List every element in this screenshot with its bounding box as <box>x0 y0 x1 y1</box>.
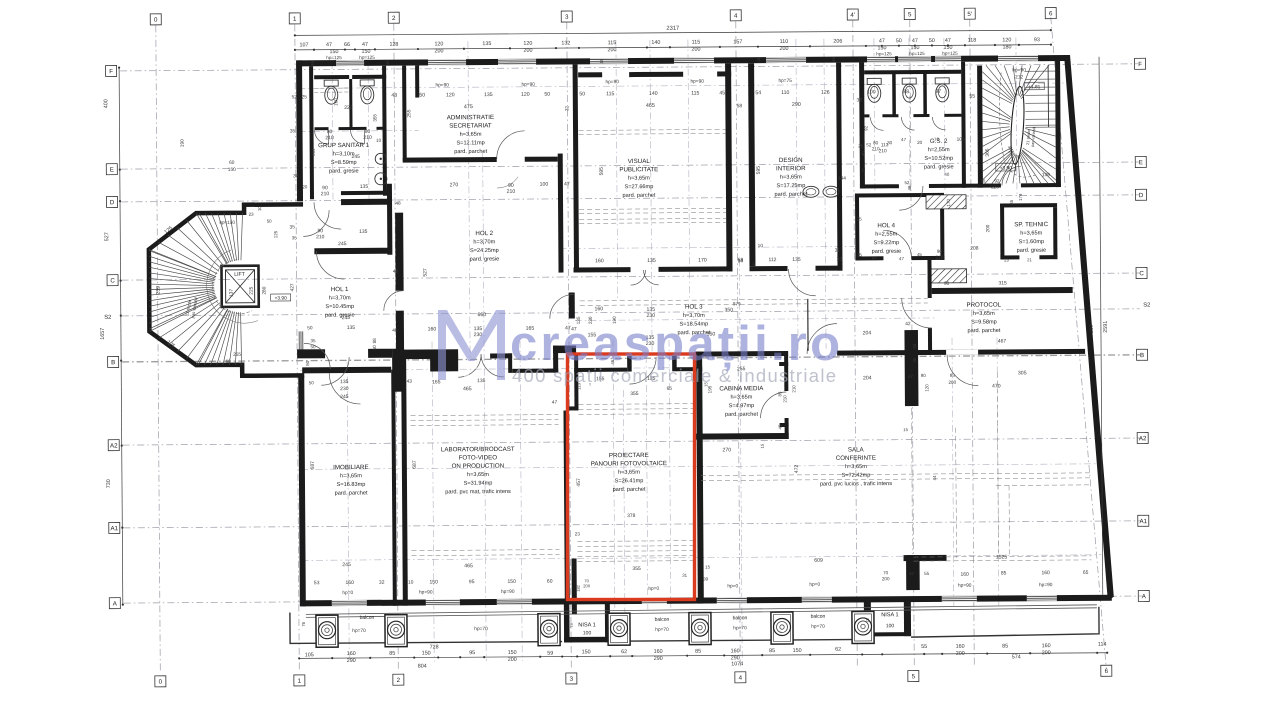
svg-text:20: 20 <box>302 184 307 189</box>
grid marker C left <box>107 275 118 286</box>
svg-text:pard. gresie: pard. gresie <box>872 249 902 255</box>
svg-text:pard. parchet: pard. parchet <box>613 487 646 493</box>
svg-text:B: B <box>111 359 115 366</box>
svg-text:355: 355 <box>630 391 639 397</box>
svg-text:365: 365 <box>985 148 991 156</box>
svg-text:23: 23 <box>1004 257 1009 262</box>
visual publicitate left wall <box>573 64 579 272</box>
window left wall <box>298 331 300 351</box>
svg-text:132: 132 <box>561 40 570 46</box>
protocol left wall lower <box>928 328 932 350</box>
svg-text:270: 270 <box>450 182 459 188</box>
grid axis lines vertical <box>156 25 161 671</box>
svg-text:139: 139 <box>1042 172 1050 178</box>
svg-text:10: 10 <box>980 179 985 184</box>
svg-text:50: 50 <box>307 325 313 331</box>
sp tehnic bottom b <box>1039 255 1057 259</box>
balcony planter column x=617 <box>608 613 630 645</box>
stall partition <box>349 79 352 130</box>
svg-text:CABINA MEDIA: CABINA MEDIA <box>719 385 764 392</box>
svg-text:pard. parchet: pard. parchet <box>454 149 487 155</box>
svg-text:105: 105 <box>305 652 314 658</box>
bottom dimension rows <box>299 653 1107 659</box>
svg-text:44: 44 <box>932 475 937 480</box>
svg-text:h=3,65m: h=3,65m <box>730 395 752 401</box>
svg-text:210: 210 <box>782 395 787 403</box>
svg-text:pard. pvc mat, trafic intens: pard. pvc mat, trafic intens <box>445 489 511 495</box>
svg-text:hp=75: hp=75 <box>778 78 792 84</box>
svg-text:1657: 1657 <box>100 328 106 340</box>
svg-text:SALA: SALA <box>848 446 865 453</box>
svg-text:62: 62 <box>621 649 627 655</box>
svg-text:595: 595 <box>756 166 762 175</box>
svg-text:88: 88 <box>372 338 377 344</box>
svg-text:48: 48 <box>391 93 397 99</box>
stall top wall a <box>314 75 349 79</box>
svg-text:350: 350 <box>724 307 733 313</box>
hol2-hol3 wall stub <box>569 292 575 318</box>
octagon stair treads <box>149 250 216 277</box>
svg-text:190: 190 <box>180 139 186 147</box>
svg-text:255: 255 <box>233 352 241 358</box>
svg-text:90: 90 <box>937 249 943 254</box>
svg-text:85: 85 <box>1001 570 1007 576</box>
door hol4 <box>883 230 911 258</box>
svg-text:35: 35 <box>290 224 296 230</box>
hatched pier 2 <box>930 269 967 283</box>
svg-text:52: 52 <box>904 180 909 185</box>
svg-text:85: 85 <box>695 649 701 655</box>
door gs2 exit <box>899 186 923 210</box>
svg-text:30: 30 <box>887 140 893 145</box>
svg-text:C: C <box>1139 270 1144 277</box>
door administratie <box>497 131 525 159</box>
svg-text:210: 210 <box>363 135 372 141</box>
grid marker A right <box>1138 590 1149 601</box>
svg-text:42: 42 <box>905 321 911 327</box>
svg-text:45: 45 <box>778 424 783 429</box>
svg-text:S=27.66mp: S=27.66mp <box>625 184 654 190</box>
gs2 partition 2 <box>923 72 927 116</box>
svg-text:hp=70: hp=70 <box>474 626 488 632</box>
gs2 front c <box>913 114 929 117</box>
svg-text:170: 170 <box>946 199 951 207</box>
svg-text:687: 687 <box>310 461 316 470</box>
svg-text:97: 97 <box>935 89 941 95</box>
svg-text:115: 115 <box>606 91 614 97</box>
svg-text:90: 90 <box>944 281 950 287</box>
svg-text:S=4.97mp: S=4.97mp <box>729 403 755 409</box>
svg-text:3: 3 <box>565 14 569 21</box>
gs2 front d <box>944 114 961 117</box>
svg-text:50: 50 <box>544 92 550 98</box>
watermark logo M <box>438 310 505 380</box>
svg-text:G.S. 2: G.S. 2 <box>930 138 948 145</box>
svg-text:144: 144 <box>838 176 846 182</box>
imobiliare right wall <box>391 370 397 606</box>
grid marker F right <box>1135 58 1146 69</box>
svg-text:53: 53 <box>314 580 320 586</box>
svg-text:15: 15 <box>705 565 710 570</box>
svg-text:hp=90: hp=90 <box>1012 67 1026 73</box>
grup sanitar bottom wall <box>341 191 387 195</box>
svg-text:85: 85 <box>769 648 775 654</box>
svg-text:210: 210 <box>316 234 325 240</box>
visual bottom wall b <box>658 266 732 272</box>
stair left wall <box>977 66 983 188</box>
toilet gs2 a <box>867 78 881 84</box>
svg-text:60: 60 <box>547 579 553 585</box>
door stair <box>1002 166 1021 185</box>
svg-text:S=17.25mp: S=17.25mp <box>777 183 806 189</box>
svg-text:220: 220 <box>344 105 353 111</box>
svg-text:45: 45 <box>599 58 604 63</box>
svg-text:NISA 1: NISA 1 <box>578 622 595 628</box>
visual publicitate right wall <box>725 63 732 271</box>
svg-text:IMOBILIARE: IMOBILIARE <box>333 464 368 471</box>
svg-text:0: 0 <box>159 679 163 686</box>
svg-text:160: 160 <box>731 648 740 654</box>
window in bottom wall 715-745 <box>717 597 747 599</box>
svg-text:+1.81: +1.81 <box>1028 84 1041 90</box>
hol4 bottom wall b <box>911 256 944 260</box>
svg-text:135: 135 <box>347 325 356 331</box>
svg-text:206: 206 <box>833 39 842 45</box>
svg-text:ON PRODUCTION: ON PRODUCTION <box>452 463 505 470</box>
svg-text:60: 60 <box>372 345 377 351</box>
door hol1-hol2 <box>384 291 404 311</box>
svg-text:31: 31 <box>682 573 687 578</box>
svg-text:85: 85 <box>389 651 395 657</box>
svg-text:80: 80 <box>873 140 879 145</box>
svg-text:140: 140 <box>649 91 658 97</box>
svg-text:23: 23 <box>575 531 581 536</box>
svg-text:h=3,65m: h=3,65m <box>780 174 802 180</box>
svg-text:hp=0: hp=0 <box>648 586 659 592</box>
administratie left wall <box>402 66 407 162</box>
svg-text:200: 200 <box>691 47 700 53</box>
shaft wall 48 <box>415 66 419 98</box>
svg-text:120: 120 <box>521 92 530 98</box>
svg-text:50: 50 <box>309 380 315 385</box>
svg-text:hp=125: hp=125 <box>942 51 958 56</box>
svg-text:128: 128 <box>389 42 398 48</box>
svg-text:210: 210 <box>321 191 330 197</box>
window in top wall 500-538 <box>498 59 536 61</box>
wall hol1-hol2 upper <box>395 213 404 291</box>
right margin dims <box>1099 57 1103 595</box>
svg-text:100: 100 <box>583 630 592 636</box>
svg-text:PANOURI FOTOVOLTAICE: PANOURI FOTOVOLTAICE <box>591 460 667 468</box>
svg-text:239: 239 <box>156 286 162 295</box>
toilet gs2 c <box>935 78 949 84</box>
laborator top wall b <box>490 353 512 358</box>
hatched pier 1 <box>926 195 966 209</box>
svg-text:47: 47 <box>326 42 332 48</box>
svg-text:32: 32 <box>564 105 569 111</box>
svg-text:HOL 4: HOL 4 <box>877 222 895 229</box>
svg-text:h=3,65m: h=3,65m <box>845 464 867 470</box>
svg-text:1: 1 <box>293 16 297 23</box>
svg-text:160: 160 <box>1042 643 1051 649</box>
svg-text:465: 465 <box>646 103 655 109</box>
svg-text:245: 245 <box>1008 145 1013 153</box>
svg-text:58: 58 <box>738 258 744 264</box>
grid marker A1 left <box>109 522 120 533</box>
door gs2 c <box>932 117 945 130</box>
balcony planter column x=698 <box>689 613 711 645</box>
svg-text:157: 157 <box>733 39 742 45</box>
toilet grup sanitar 1 a <box>324 80 338 86</box>
svg-text:45: 45 <box>831 57 836 62</box>
svg-text:135: 135 <box>647 258 656 264</box>
svg-text:10: 10 <box>408 580 414 586</box>
svg-text:85: 85 <box>1009 199 1014 204</box>
svg-text:hp=90: hp=90 <box>1039 582 1053 588</box>
svg-text:120: 120 <box>523 41 532 47</box>
svg-text:200: 200 <box>985 224 990 232</box>
door design <box>789 269 816 296</box>
svg-text:6: 6 <box>1049 10 1053 17</box>
svg-text:80: 80 <box>921 373 927 378</box>
svg-text:25: 25 <box>857 252 863 257</box>
cabina media right wall upper <box>784 351 788 391</box>
window in bottom wall 424-458 <box>426 599 460 601</box>
left margin dims <box>119 68 123 605</box>
stair bottom wall b <box>1021 183 1061 187</box>
svg-text:52: 52 <box>292 94 298 100</box>
svg-text:S=1.60mp: S=1.60mp <box>1018 239 1044 245</box>
svg-text:FOTO-VIDEO: FOTO-VIDEO <box>459 454 498 461</box>
svg-text:50: 50 <box>310 344 316 349</box>
stair top right newel <box>1009 86 1026 165</box>
svg-text:208: 208 <box>970 246 979 252</box>
visual top inner wall a <box>578 72 602 77</box>
door laborator leaf a <box>458 354 481 377</box>
svg-text:212: 212 <box>1015 74 1023 80</box>
svg-text:hp=70: hp=70 <box>811 624 825 630</box>
svg-text:58: 58 <box>737 103 743 109</box>
balcony planter column x=547 <box>538 614 560 646</box>
red highlight rectangle proiectare <box>568 354 695 600</box>
svg-text:245: 245 <box>338 241 347 247</box>
svg-text:A1: A1 <box>1139 518 1147 525</box>
door protocol <box>902 298 932 328</box>
cabina stub b <box>780 423 789 427</box>
svg-text:HOL 3: HOL 3 <box>685 304 703 311</box>
svg-text:100: 100 <box>867 89 876 95</box>
door visual b <box>644 270 659 285</box>
gs2 bottom wall b <box>929 184 979 188</box>
svg-text:15: 15 <box>903 427 908 432</box>
svg-text:ADMINISTRATIE: ADMINISTRATIE <box>447 114 494 121</box>
svg-text:210: 210 <box>872 146 880 151</box>
grid marker 1 bottom <box>294 675 305 686</box>
wall hol2-visual shaft <box>558 154 564 273</box>
svg-text:5': 5' <box>967 11 972 18</box>
svg-text:210: 210 <box>1089 324 1095 332</box>
svg-text:60: 60 <box>229 160 235 166</box>
svg-text:21: 21 <box>1027 257 1032 262</box>
gs2 top wall <box>864 70 961 75</box>
svg-text:+3.90: +3.90 <box>275 295 288 301</box>
grid marker 6 top <box>1045 8 1056 19</box>
svg-text:+3.90: +3.90 <box>1000 165 1013 171</box>
svg-text:balcon: balcon <box>360 615 375 621</box>
svg-text:118: 118 <box>968 38 977 44</box>
svg-text:hp=90: hp=90 <box>419 589 433 595</box>
svg-text:6: 6 <box>1105 668 1109 675</box>
svg-text:200: 200 <box>583 583 591 588</box>
svg-text:170: 170 <box>698 258 707 264</box>
svg-text:107: 107 <box>299 42 308 48</box>
door hol1 bottom <box>321 357 349 385</box>
svg-text:125: 125 <box>273 230 278 238</box>
svg-text:88: 88 <box>903 89 909 95</box>
svg-text:210: 210 <box>936 255 944 260</box>
svg-text:355: 355 <box>632 566 641 572</box>
svg-text:A2: A2 <box>1139 435 1147 442</box>
proiectare top jog a <box>627 356 632 372</box>
svg-text:135: 135 <box>340 379 349 385</box>
svg-text:85: 85 <box>872 256 878 261</box>
grid marker 6 bottom <box>1101 665 1112 676</box>
grid marker 2 top <box>388 12 399 23</box>
svg-text:135: 135 <box>477 378 486 384</box>
svg-text:355: 355 <box>372 114 377 122</box>
svg-text:92: 92 <box>994 178 1000 183</box>
balcony planter column x=325 <box>316 615 338 647</box>
interior dashed bands <box>579 129 726 130</box>
sp tehnic bottom a <box>1000 255 1019 259</box>
svg-text:hp=125: hp=125 <box>876 51 892 56</box>
stall front mid <box>339 127 353 130</box>
door visual a <box>631 270 646 285</box>
svg-text:270: 270 <box>722 447 731 453</box>
window in bottom wall 495-530 <box>497 599 532 601</box>
design interior right wall <box>836 63 842 271</box>
svg-text:SP. TEHNIC: SP. TEHNIC <box>1014 221 1048 228</box>
svg-text:290: 290 <box>347 658 356 664</box>
svg-text:LABORATOR/BRODCAST: LABORATOR/BRODCAST <box>441 446 515 454</box>
window in bottom wall 940-975 <box>942 596 977 598</box>
grid marker 0 top <box>150 14 161 25</box>
svg-text:pard. parchet: pard. parchet <box>774 192 807 198</box>
svg-text:200: 200 <box>508 657 517 663</box>
svg-text:pard. gresie: pard. gresie <box>924 164 954 170</box>
svg-text:pard. parchet: pard. parchet <box>622 193 655 199</box>
svg-text:60: 60 <box>226 359 232 364</box>
svg-text:balcon: balcon <box>733 615 748 621</box>
sala pier upper <box>904 330 918 406</box>
svg-text:160: 160 <box>428 326 437 332</box>
svg-text:GRUP SANITAR 1: GRUP SANITAR 1 <box>318 142 370 149</box>
svg-text:137: 137 <box>229 289 235 297</box>
svg-text:150: 150 <box>508 650 517 656</box>
svg-text:F: F <box>109 68 113 75</box>
svg-text:457: 457 <box>576 478 582 487</box>
svg-text:120: 120 <box>434 41 443 47</box>
svg-text:200: 200 <box>948 380 956 385</box>
svg-text:160: 160 <box>345 580 354 586</box>
svg-text:595: 595 <box>599 167 605 176</box>
door gs2 b <box>901 117 914 130</box>
door hol2-hol3 <box>550 294 574 318</box>
svg-text:804: 804 <box>418 663 427 669</box>
svg-text:160: 160 <box>956 644 965 650</box>
svg-text:200: 200 <box>434 48 443 54</box>
svg-text:210: 210 <box>879 148 887 154</box>
grid marker A left <box>109 598 120 609</box>
svg-text:10: 10 <box>257 206 262 211</box>
svg-text:200: 200 <box>779 46 788 52</box>
svg-text:120: 120 <box>1002 37 1011 43</box>
svg-text:4: 4 <box>734 13 738 20</box>
window in top wall 676-716 <box>674 58 714 60</box>
svg-text:50: 50 <box>579 91 585 97</box>
svg-text:hp=0: hp=0 <box>727 583 738 589</box>
svg-text:50: 50 <box>912 343 917 348</box>
svg-text:31: 31 <box>835 248 841 254</box>
svg-text:115: 115 <box>692 40 701 46</box>
nisa 1 left niche <box>564 604 570 642</box>
svg-text:200: 200 <box>956 651 965 657</box>
svg-text:S=16.83mp: S=16.83mp <box>337 482 366 488</box>
window in top wall 768-808 <box>766 57 806 59</box>
svg-text:50: 50 <box>929 38 935 44</box>
octagonal stair bay outline <box>149 204 305 376</box>
svg-text:A2: A2 <box>110 442 118 449</box>
svg-text:126: 126 <box>821 90 830 96</box>
grid axis 6 slanted <box>1051 17 1107 669</box>
svg-text:200: 200 <box>607 47 616 53</box>
svg-text:220: 220 <box>991 184 999 189</box>
svg-text:h=3,65m: h=3,65m <box>973 311 995 317</box>
stair bottom wall a <box>978 183 1001 187</box>
grid marker 5' top <box>964 8 975 19</box>
svg-text:47: 47 <box>908 374 914 380</box>
door imobiliare <box>329 373 360 404</box>
svg-text:427: 427 <box>290 283 296 291</box>
svg-text:200: 200 <box>882 576 890 581</box>
svg-text:30: 30 <box>912 357 917 362</box>
svg-text:50: 50 <box>896 38 902 44</box>
grid marker 4 top <box>730 10 741 21</box>
laborator left wall <box>401 357 408 606</box>
svg-text:160: 160 <box>333 98 338 106</box>
stair flight divider <box>1047 65 1049 127</box>
design bottom wall a <box>749 266 787 271</box>
svg-text:65: 65 <box>667 386 673 392</box>
stall front left <box>315 127 329 130</box>
svg-text:465: 465 <box>463 386 472 392</box>
proiectare top wall a <box>574 368 627 372</box>
svg-text:47: 47 <box>909 571 915 576</box>
nisa 1 right niche <box>864 598 871 636</box>
stall top wall b <box>352 75 386 79</box>
svg-text:50: 50 <box>419 92 425 98</box>
svg-text:115: 115 <box>608 40 617 46</box>
door lobby <box>316 251 344 279</box>
wall corner left of laborator door <box>430 354 458 372</box>
svg-text:21: 21 <box>861 167 866 172</box>
svg-text:4': 4' <box>850 12 855 19</box>
sp tehnic left wall <box>1000 203 1004 259</box>
svg-text:S=9.22mp: S=9.22mp <box>873 240 899 246</box>
grid marker C right <box>1136 267 1147 278</box>
svg-text:730: 730 <box>106 479 112 488</box>
svg-text:balcon: balcon <box>655 617 670 623</box>
